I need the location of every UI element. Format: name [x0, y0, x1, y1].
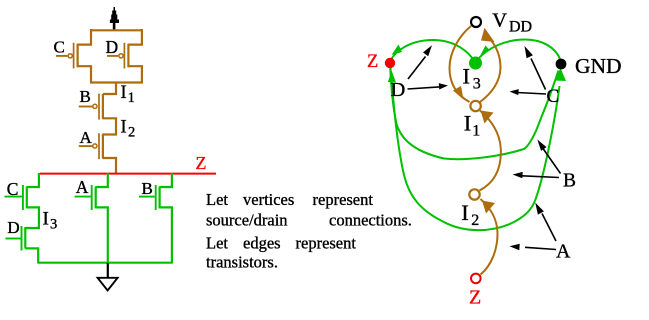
svg-text:1: 1 — [128, 90, 135, 106]
svg-text:A: A — [556, 241, 571, 263]
VDD power arrow symbol — [110, 7, 119, 30]
svg-text:Z: Z — [367, 52, 378, 72]
svg-text:D: D — [106, 37, 119, 57]
wire: PMOS top rail VDD — [90, 29, 143, 31]
svg-text:C: C — [547, 86, 560, 107]
edge brown B: I1 to I2 (S curve) — [480, 111, 501, 191]
wire: B drain down to ground rail — [160, 207, 172, 263]
arrowhead into I1 — [481, 111, 494, 124]
wire: NMOS middle branch (A) from Z — [96, 173, 108, 187]
svg-text:B: B — [563, 171, 576, 192]
wire: D drain down to ground rail — [25, 248, 38, 263]
transistor N-A gate plate — [91, 185, 93, 210]
svg-text:D: D — [391, 79, 406, 101]
svg-text:3: 3 — [50, 216, 57, 232]
wire: NMOS ground rail — [38, 262, 172, 264]
wire: NMOS left branch from Z — [27, 173, 39, 187]
ground symbol — [107, 263, 109, 278]
transistor Q-C gate bubble — [68, 54, 72, 58]
wire: D drain to rail bottom — [128, 66, 142, 82]
wire: C drain to I3 node — [25, 207, 39, 228]
transistor N-A channel — [95, 186, 97, 208]
transistor N-D channel — [24, 227, 26, 248]
svg-text:V: V — [492, 10, 507, 32]
vertex Z bottom (open circle red) — [471, 274, 481, 284]
transistor N-C channel — [26, 186, 28, 208]
svg-text:I: I — [120, 116, 126, 137]
wire: NMOS right branch (B) from Z — [160, 173, 172, 187]
vertex I2 (open circle brown) — [469, 189, 479, 199]
wire: rail right drop to D source — [128, 29, 142, 45]
wire: A drain down to Z rail — [103, 158, 116, 174]
transistor Q-A PMOS channel — [102, 134, 104, 159]
transistor Q-B gate bubble — [93, 104, 97, 108]
vertex Z left (red dot) — [385, 58, 395, 68]
arrowhead into I2 — [482, 201, 495, 214]
transistor N-D gate plate — [21, 226, 23, 251]
wire: rail left drop to C source — [78, 29, 91, 45]
svg-text:2: 2 — [128, 124, 135, 140]
edge brown A: I2 to Z (S curve) — [481, 199, 498, 275]
transistor Q-B PMOS channel — [102, 94, 104, 119]
edge green D: Z to I3 (top left arc) — [390, 40, 475, 63]
svg-text:GND: GND — [575, 54, 622, 78]
wire: N-C gate lead — [5, 196, 23, 198]
wire: rail stub down to I1 — [103, 83, 116, 95]
wire: N-A gate lead — [75, 196, 91, 198]
svg-text:I: I — [43, 209, 49, 230]
svg-text:C: C — [7, 179, 19, 199]
arrowhead into Z (from below) — [388, 71, 396, 83]
svg-text:DD: DD — [509, 19, 532, 36]
transistor Q-B gate plate — [98, 94, 100, 120]
svg-text:transistors.: transistors. — [206, 253, 278, 272]
transistor Q-A gate bubble — [93, 144, 97, 148]
wire: A gate lead — [79, 145, 93, 147]
svg-text:1: 1 — [472, 122, 480, 139]
vertex I1 (open circle brown) — [470, 101, 480, 111]
arrowhead into VDD — [481, 28, 495, 42]
vertex I3 (green dot) — [469, 57, 482, 70]
wire: C drain to rail bottom — [78, 66, 91, 82]
svg-text:C: C — [54, 37, 65, 56]
wire: A drain down to ground rail — [96, 207, 108, 263]
pointer arrow D to brown left arc — [408, 87, 442, 89]
edge brown C: I1 to VDD (right arc) — [480, 39, 501, 102]
pointer arrow A to green arc — [542, 214, 556, 242]
edge green A: Z to GND (lower big arc) — [390, 63, 560, 230]
transistor N-B channel — [159, 186, 161, 208]
pointer arrow C to green arc — [531, 59, 546, 90]
wire: N-D gate lead — [6, 238, 21, 240]
transistor N-B gate plate — [155, 185, 157, 210]
transistor N-C gate plate — [22, 185, 24, 210]
svg-text:Z: Z — [196, 153, 207, 173]
svg-text:B: B — [80, 87, 91, 106]
pointer arrow B to green arc — [543, 149, 561, 174]
svg-text:I: I — [464, 111, 472, 136]
svg-text:I: I — [120, 82, 126, 103]
pointer arrow A to brown curve — [525, 247, 556, 249]
transistor Q-D gate plate — [123, 43, 125, 69]
arrowhead into I1 (on left arc) — [453, 86, 464, 100]
edge green C: I3 to GND (top right arc) — [478, 40, 561, 61]
transistor Q-A gate plate — [98, 133, 100, 159]
wire: C gate lead — [56, 55, 67, 57]
wire: B drain to I2 — [103, 118, 116, 134]
vertex VDD (open circle) — [471, 17, 481, 27]
pointer arrow C to brown right arc — [517, 93, 546, 95]
svg-text:A: A — [76, 177, 89, 197]
svg-text:D: D — [7, 218, 19, 237]
arrowhead into GND (from below) — [555, 68, 567, 81]
pointer arrow D to green arc — [408, 57, 426, 80]
transistor Q-C PMOS channel — [76, 44, 78, 68]
svg-text:B: B — [142, 179, 153, 198]
edge green B: Z to GND (upper big arc) — [390, 63, 559, 159]
wire: N-B gate lead — [139, 196, 155, 198]
svg-text:3: 3 — [473, 75, 481, 92]
svg-text:A: A — [80, 128, 93, 147]
wire: B gate lead — [79, 106, 93, 108]
arrowhead into Z — [392, 45, 403, 56]
vertex GND (black dot) — [556, 59, 567, 70]
transistor Q-D gate bubble — [119, 54, 123, 58]
pointer arrow B to brown curve — [522, 176, 559, 178]
arrowhead into I3 — [480, 46, 490, 57]
svg-text:Z: Z — [469, 287, 481, 309]
svg-text:I: I — [463, 64, 471, 89]
transistor Q-D PMOS channel — [127, 44, 129, 68]
svg-text:I: I — [461, 200, 469, 225]
node Z output rail (red) — [40, 173, 216, 175]
wire: D gate lead — [107, 55, 118, 57]
edge brown D: VDD to I1 (left arc) — [450, 26, 472, 102]
transistor Q-C gate plate — [73, 43, 75, 69]
wire: PMOS bottom rail — [90, 81, 143, 83]
svg-text:2: 2 — [471, 212, 479, 229]
